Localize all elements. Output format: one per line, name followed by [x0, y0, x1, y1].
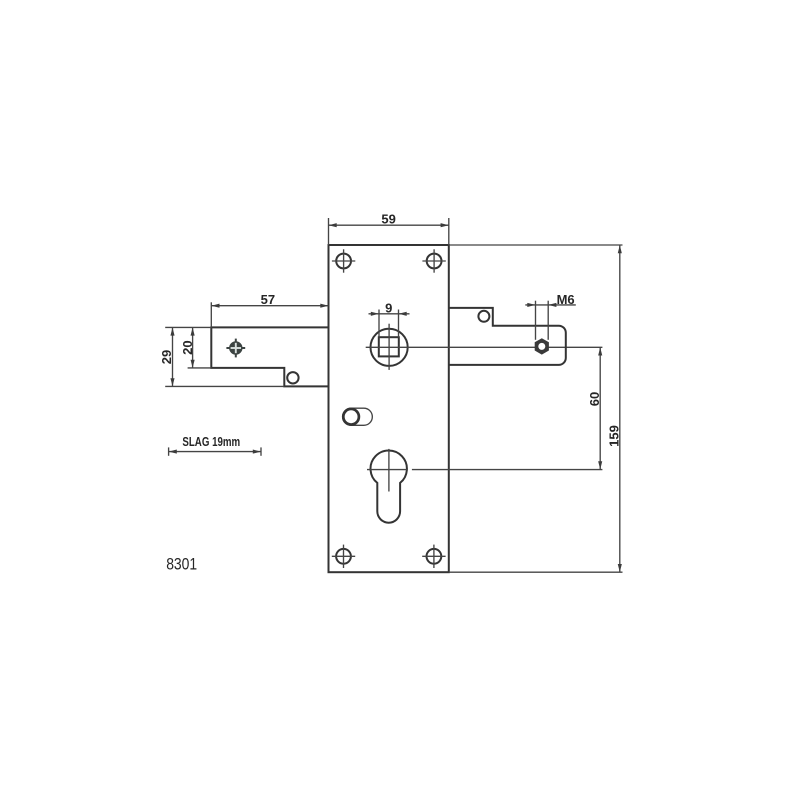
- SLAG arrow left: [169, 450, 177, 454]
- hole top-right crosshair: [422, 249, 445, 272]
- dimension 159 extension bottom: [449, 571, 623, 573]
- dimension 59 line: [329, 224, 449, 226]
- hole bottom-left crosshair: [332, 545, 355, 568]
- SLAG dimension line: [169, 451, 261, 453]
- oblong slot bold circle: [343, 409, 359, 425]
- svg-text:59: 59: [381, 212, 395, 227]
- follower horizontal centerline (extends to 60-dim): [366, 346, 603, 348]
- dimension 20 arrow top: [191, 327, 195, 335]
- follower circle (spindle hub): [371, 329, 408, 366]
- SLAG arrow right: [253, 450, 261, 454]
- right arm hole: [478, 311, 489, 322]
- dimension 9 arrow left: [371, 312, 379, 316]
- euro cylinder profile: [370, 451, 406, 523]
- dimension 159 arrow top: [618, 245, 622, 253]
- SLAG end tick right: [260, 447, 262, 455]
- dimension 60 arrow bottom: [598, 461, 602, 469]
- left arm (bolt) outline: [211, 327, 328, 386]
- square spindle hole 9mm: [379, 337, 399, 356]
- M6 dimension line: [525, 304, 576, 306]
- dimension 159 line: [619, 245, 621, 572]
- M6 arrow right: [548, 303, 556, 307]
- countersunk screw marker: [226, 339, 245, 358]
- svg-text:60: 60: [587, 392, 602, 406]
- M6 arrow left: [527, 303, 535, 307]
- dimension 29 arrow top: [170, 327, 174, 335]
- dimension 9 extension lines: [378, 310, 380, 338]
- dimension 159 arrow bottom: [618, 564, 622, 572]
- svg-text:9: 9: [385, 300, 392, 315]
- left arm hole: [287, 372, 298, 383]
- right arm outline: [449, 308, 566, 365]
- M6 hex nut: [535, 338, 549, 354]
- svg-text:57: 57: [261, 292, 275, 307]
- svg-text:20: 20: [180, 340, 195, 354]
- dimension 59 extension lines: [328, 218, 330, 245]
- svg-text:159: 159: [607, 425, 622, 447]
- M6 dimension extension lines: [535, 301, 537, 340]
- dimension 159 extension top: [449, 244, 623, 246]
- dimension 59 arrow left: [329, 223, 337, 227]
- hole top-left crosshair: [332, 249, 355, 272]
- dimension 29 line: [172, 327, 174, 386]
- oblong slot outline: [343, 408, 373, 425]
- cylinder horizontal centerline (extends to 60-dim): [367, 469, 407, 471]
- follower vertical centerline: [388, 324, 390, 370]
- dimension 57 line: [211, 305, 328, 307]
- dimension 29/20 extension lines: [165, 326, 211, 328]
- dimension 29 arrow bottom: [170, 378, 174, 386]
- dimension 20 line: [192, 327, 194, 368]
- dimension 59 arrow right: [441, 223, 449, 227]
- lock body outline: [329, 245, 449, 572]
- dimension 57 extension line: [210, 302, 212, 327]
- svg-text:SLAG 19mm: SLAG 19mm: [182, 434, 240, 449]
- dimension 57 arrow right: [320, 304, 328, 308]
- SLAG end tick left: [168, 447, 170, 455]
- hole bottom-right crosshair: [422, 545, 445, 568]
- svg-text:M6: M6: [557, 292, 575, 307]
- dimension 20 arrow bottom: [191, 360, 195, 368]
- dimension 60 line: [599, 347, 601, 469]
- dimension 9 arrow right: [399, 312, 407, 316]
- cylinder vertical centerline: [388, 449, 390, 492]
- dimension 57 arrow left: [211, 304, 219, 308]
- svg-text:29: 29: [159, 350, 174, 364]
- svg-text:8301: 8301: [166, 555, 197, 573]
- dimension 60 arrow top: [598, 347, 602, 355]
- dimension 9 line: [369, 313, 410, 315]
